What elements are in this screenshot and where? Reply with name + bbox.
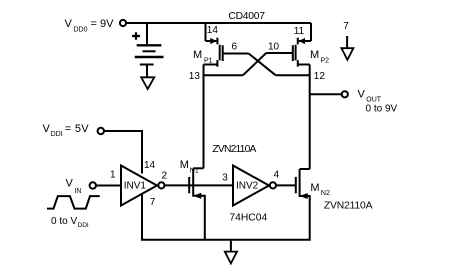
wire battery to ground (146, 66, 148, 78)
label VDD0 = 9V (65, 18, 115, 34)
wire MP2 pin11 drop (310, 23, 312, 41)
battery B1 plate long (135, 56, 164, 58)
wire MP1 pin14 drop (205, 23, 207, 41)
svg-text:2: 2 (162, 171, 168, 182)
label MP2 (310, 49, 329, 65)
wire battery tap (146, 23, 148, 44)
svg-text:N2: N2 (321, 190, 330, 197)
wire bottom ground rail (141, 239, 311, 241)
transistor MN1 gate bar (188, 177, 190, 193)
label MP1 (193, 49, 213, 65)
wire cross diagonal to MP2 gate (243, 53, 266, 75)
transistor MN1 channel (192, 168, 194, 191)
transistor MN2 gate bar (295, 177, 297, 193)
svg-text:0 to 9V: 0 to 9V (366, 103, 398, 114)
svg-text:7: 7 (343, 21, 349, 32)
svg-text:INV1: INV1 (124, 181, 147, 192)
transistor MP2 channel bar (295, 45, 297, 61)
label VOUT (358, 88, 398, 114)
svg-text:CD4007: CD4007 (228, 11, 265, 22)
node VIN terminal (90, 182, 96, 188)
inverter INV2 bubble (270, 182, 276, 188)
ground battery (141, 77, 154, 89)
battery B1 plate short (143, 50, 156, 52)
ground pin7 (341, 48, 353, 60)
svg-text:0 to V: 0 to V (51, 216, 77, 227)
svg-text:M: M (310, 49, 319, 61)
svg-text:ZVN2110A: ZVN2110A (324, 200, 373, 211)
node VDDI terminal (98, 128, 104, 134)
wire INV1 out to INV2 in (165, 184, 233, 186)
battery B1 plate short bottom (140, 64, 154, 66)
svg-text:= 9V: = 9V (91, 18, 115, 30)
transistor MP2 source arrow (300, 39, 305, 44)
wire VDDI to INV1 pin14 (104, 131, 142, 174)
inverter INV2 (233, 166, 269, 206)
label MN2 (310, 182, 330, 197)
wire MP1 gate lead (223, 53, 249, 55)
wire node12 horizontal (276, 74, 310, 76)
svg-text:INV2: INV2 (236, 181, 259, 192)
svg-text:12: 12 (314, 71, 326, 82)
label 0 to VDDI (51, 216, 89, 229)
transistor MN2 source lead (300, 190, 310, 240)
transistor MP2 drain tick (297, 60, 299, 67)
svg-text:OUT: OUT (366, 96, 382, 103)
transistor MP1 drain tick (216, 60, 218, 67)
svg-text:14: 14 (207, 25, 219, 36)
svg-text:V: V (358, 88, 366, 100)
svg-text:M: M (310, 182, 319, 194)
transistor MP1 source arrow (211, 39, 216, 44)
svg-text:P2: P2 (321, 58, 330, 65)
svg-text:7: 7 (150, 197, 156, 208)
svg-text:V: V (43, 123, 51, 135)
svg-text:= 5V: = 5V (65, 123, 89, 135)
transistor MP1 source lead (206, 40, 217, 42)
transistor MP2 gate bar (292, 45, 294, 61)
svg-text:4: 4 (274, 170, 280, 181)
svg-text:IN: IN (74, 188, 81, 195)
svg-text:13: 13 (189, 71, 201, 82)
transistor MP2 drain lead (298, 64, 310, 66)
label VDDI = 5V (43, 123, 90, 138)
wire VIN to INV1 (96, 185, 120, 187)
svg-text:M: M (193, 49, 202, 61)
wire node13 horizontal (204, 74, 244, 76)
wire top VDD0 rail (126, 22, 311, 24)
ground bottom (225, 252, 237, 264)
transistor MN1 drain lead (193, 167, 203, 169)
svg-text:ZVN2110A: ZVN2110A (212, 144, 256, 155)
transistor MN1 source lead (193, 190, 205, 240)
wire ground stub (230, 240, 232, 252)
waveform VIN (47, 196, 100, 209)
transistor MN2 source arrow (301, 194, 307, 199)
inverter INV1 bubble (158, 182, 164, 188)
svg-text:DD0: DD0 (74, 27, 88, 34)
svg-text:1: 1 (110, 170, 116, 181)
inverter INV1 (121, 166, 157, 206)
svg-text:V: V (65, 18, 73, 30)
svg-text:10: 10 (268, 42, 280, 53)
wire VOUT tap (310, 93, 342, 95)
svg-text:14: 14 (144, 160, 156, 171)
transistor MN2 drain lead (300, 168, 310, 170)
svg-text:V: V (66, 178, 74, 190)
wire INV1 pin7 drop (141, 194, 143, 240)
svg-text:DDI: DDI (78, 222, 89, 229)
svg-text:3: 3 (222, 172, 228, 183)
transistor MN1 source arrow (195, 194, 201, 199)
svg-text:11: 11 (294, 26, 305, 37)
wire pin7 ground lead (346, 36, 348, 48)
transistor MP1 gate bar (222, 45, 224, 61)
wire pin12 vertical (309, 65, 311, 170)
label VIN (66, 178, 82, 195)
wire MP2 gate lead (266, 52, 293, 54)
node VDD0 terminal (120, 20, 126, 26)
transistor MN2 channel (299, 169, 301, 191)
transistor MP1 drain lead (204, 64, 218, 66)
wire cross diagonal to node12 (249, 54, 276, 76)
wire INV2 out to MN2 gate (276, 184, 296, 186)
transistor MP1 channel bar (219, 45, 221, 61)
transistor MP2 source lead (299, 40, 311, 42)
battery B1 plate long top (137, 44, 162, 46)
battery plus sign (132, 32, 140, 39)
transistor MP2 source tick (297, 38, 299, 45)
transistor MP1 source tick (216, 38, 218, 45)
wire pin13 vertical (203, 65, 205, 169)
svg-text:N1: N1 (190, 168, 199, 175)
svg-text:M: M (180, 159, 189, 171)
svg-text:6: 6 (232, 42, 238, 53)
svg-text:74HC04: 74HC04 (229, 213, 267, 224)
svg-text:P1: P1 (204, 58, 213, 65)
node VOUT terminal (342, 91, 348, 97)
label MN1 (180, 159, 199, 175)
svg-text:DDI: DDI (51, 131, 63, 138)
